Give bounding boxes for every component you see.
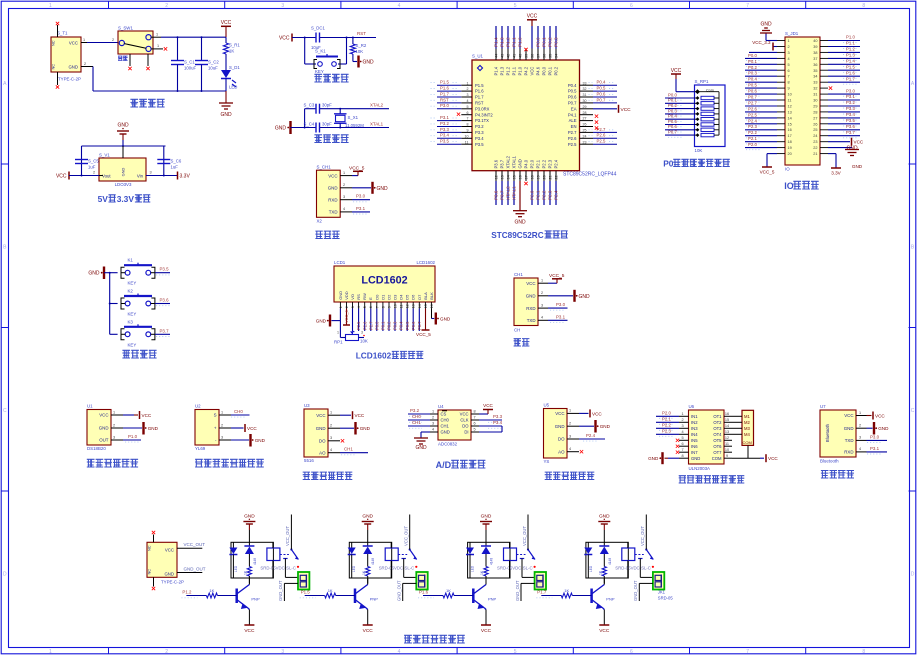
svg-text:P0.7: P0.7 [417,321,422,330]
svg-text:P0.5: P0.5 [405,321,410,330]
svg-text:D0: D0 [374,294,379,300]
svg-text:CH1: CH1 [412,420,421,425]
svg-text:IN2: IN2 [691,420,698,425]
IO port pin 9 left [745,83,790,91]
svg-text:EN: EN [571,124,577,129]
svg-text:P0.6: P0.6 [597,91,606,96]
svg-text:30: 30 [813,99,817,103]
svg-text:P3.4: P3.4 [846,112,855,117]
relay coil of relay 1 [267,542,280,578]
power flag VCC_5 on download port pin1 [349,165,365,175]
svg-text:P2.7: P2.7 [568,130,577,135]
ground at LCD pin1 [316,309,341,338]
svg-text:22: 22 [555,175,559,179]
svg-text:P2.4: P2.4 [554,159,559,168]
svg-text:GND: GND [415,445,427,451]
svg-text:S_D1: S_D1 [229,65,240,70]
svg-text:P1.6: P1.6 [419,590,429,595]
svg-text:P2.3: P2.3 [548,190,553,200]
svg-text:P3.0: P3.0 [846,88,855,93]
svg-text:CH1: CH1 [514,272,523,277]
svg-text:P1.0: P1.0 [518,37,523,47]
base resistor 1K of relay 2 [305,588,355,598]
wire P0.7 to RP1 [665,130,695,138]
svg-text:42: 42 [507,54,511,58]
power flag VCC_5 on serial pin1 [548,273,565,283]
svg-text:P3.1: P3.1 [356,206,366,211]
svg-text:P4.2: P4.2 [524,66,529,75]
wire relay 1 common to terminal [285,559,298,578]
no-connect X on switch bottom stub 1 [128,67,131,70]
svg-text:P2.4: P2.4 [748,118,757,123]
svg-text:GND: GND [852,164,863,169]
svg-text:VCC_5: VCC_5 [549,273,565,279]
svg-text:P0.5: P0.5 [568,89,577,94]
wire GND_OUT from J1 [177,567,206,573]
flyback diode of relay 3 [481,542,494,566]
svg-text:P1.7: P1.7 [537,590,547,595]
svg-text:P0: P0 [663,159,674,169]
svg-text:2: 2 [541,291,543,295]
svg-text:VCC: VCC [527,14,538,20]
LCD pin 2 VDD [344,291,349,308]
svg-text:14: 14 [725,424,729,428]
svg-text:JK1: JK1 [658,590,666,595]
ground above relay 4 [598,514,610,543]
key S_K1 KEY [305,38,347,75]
svg-text:9: 9 [388,306,392,308]
MCU right pin 23 P2.5 [568,139,617,147]
wire CH1 on U3 pin4 [340,447,368,455]
svg-text:2: 2 [221,423,223,427]
relay JK4 SRD-05VDC-SL-C outline [586,542,651,578]
svg-text:P3.0: P3.0 [440,103,449,108]
svg-text:P3.6: P3.6 [846,124,855,129]
svg-text:P3.4: P3.4 [440,133,449,138]
svg-text:D2: D2 [387,294,392,300]
relay contact of relay 1 [280,548,299,568]
svg-text:S_C2: S_C2 [208,60,219,65]
IO port pin 5 left [745,59,790,67]
svg-text:VCC_5: VCC_5 [344,309,349,323]
wire VCC_OUT from J1 [177,542,205,548]
module U7 Bluetooth [820,404,867,464]
capacitor S_C6 1uF [157,159,182,170]
svg-text:S_C3: S_C3 [304,103,315,108]
svg-text:STC89C52RC_LQFP44: STC89C52RC_LQFP44 [563,172,617,178]
svg-text:15: 15 [513,175,517,179]
wire P2.4 on U5 pin3 [579,433,605,441]
svg-text:VCC: VCC [99,413,108,418]
svg-text:VCC: VCC [621,107,632,113]
relay coil of relay 2 [385,542,398,578]
driver U6 ULN2003A [679,404,732,471]
svg-text:12: 12 [788,105,792,109]
svg-text:PNP: PNP [488,597,497,602]
svg-text:35: 35 [549,54,553,58]
IO port pin 36 right [813,59,860,67]
ground on serial pin2 [548,290,590,302]
power flag VCC of reset circuit [279,34,292,42]
svg-text:3: 3 [432,422,434,426]
svg-text:13: 13 [501,175,505,179]
svg-text:5: 5 [681,436,683,440]
connector J1 TYPE-C-2P output [147,535,185,587]
LCD pin 5 RW [362,293,367,331]
svg-text:VCC: VCC [56,173,67,179]
ground on U3 pin2 [340,422,371,435]
svg-text:S_X1: S_X1 [348,115,359,120]
svg-text:CH0: CH0 [234,409,243,414]
MCU top pin 38 VCC [530,26,535,76]
MCU right pin 25 P2.7 [568,127,617,135]
svg-text:5: 5 [363,306,367,308]
svg-text:P1.2: P1.2 [846,47,855,52]
flyback diode of relay 2 [363,542,376,566]
MCU left pin 10 P3.4 [431,133,485,141]
svg-text:P2.3: P2.3 [748,124,757,129]
wire P3.5 from key K1 [155,267,170,275]
svg-text:1: 1 [157,44,159,48]
svg-text:41: 41 [513,54,517,58]
title 温度检测模块 [87,459,95,467]
svg-text:GND_OUT: GND_OUT [397,580,402,601]
wire P2.2 to ULN IN3 [656,423,679,431]
svg-text:5V: 5V [98,194,109,204]
power flag VCC_5 at LCD pin15 [416,309,431,338]
svg-text:S_C5: S_C5 [88,159,99,164]
svg-text:GND: GND [362,514,373,520]
svg-text:6: 6 [681,442,683,446]
svg-text:15: 15 [788,122,792,126]
power flag VCC on U2 pin2 [231,424,257,432]
IO port pin 27 right [813,112,860,120]
svg-text:1: 1 [330,411,332,415]
svg-text:5: 5 [473,428,475,432]
svg-text:VCC: VCC [599,628,610,634]
svg-text:DS18B20: DS18B20 [87,446,106,451]
svg-text:EA: EA [571,106,577,111]
ground above relay 1 [243,514,255,543]
svg-text:8: 8 [681,454,683,458]
svg-text:P3.5: P3.5 [160,267,170,272]
key K3 KEY [110,319,155,347]
svg-text:8: 8 [862,649,865,655]
svg-text:P3.2: P3.2 [410,408,420,413]
title 按键电路 [122,350,130,358]
LED S_D1 [221,65,240,91]
no-connect X on U5 pin4 [580,450,583,453]
svg-text:4148: 4148 [371,558,375,565]
wire P3.0 download port pin3 [352,194,370,202]
LCD pin 3 VO [350,294,355,331]
svg-text:RP1: RP1 [334,340,343,345]
svg-text:VCC: VCC [244,628,255,634]
IO port pin 23 right [813,140,828,144]
svg-text:NC: NC [147,569,152,575]
svg-text:VCC_OUT: VCC_OUT [285,526,290,546]
svg-text:IN4: IN4 [691,432,698,437]
svg-text:D5: D5 [405,294,410,300]
svg-text:1: 1 [432,410,434,414]
svg-text:VCC: VCC [592,411,602,416]
svg-text:P0.4: P0.4 [568,83,577,88]
svg-text:P1.7: P1.7 [846,76,855,81]
svg-text:IO: IO [785,167,790,172]
power flag VCC below transistor Q3 [481,610,492,635]
svg-text:16: 16 [725,412,729,416]
svg-text:STC89C52RC: STC89C52RC [491,231,543,240]
svg-text:VCC_5: VCC_5 [349,165,365,171]
svg-text:OT6: OT6 [713,444,722,449]
power flag VCC below transistor Q2 [363,610,374,635]
transistor Q1 PNP [237,578,260,610]
svg-text:GND: GND [648,456,659,461]
svg-text:4: 4 [398,649,401,655]
svg-text:XTAL1: XTAL1 [512,186,517,200]
wire relay 3 common to terminal [522,559,535,578]
svg-text:3: 3 [569,434,571,438]
svg-text:10: 10 [394,304,398,308]
no-connect X on MCU bottom pin 17 [524,182,527,185]
sensor U5 YS rain [544,403,580,465]
wire VCC_OUT to relay 3 contact [522,515,528,550]
svg-text:2: 2 [788,45,790,49]
svg-text:GND: GND [555,424,565,429]
svg-text:P2.1: P2.1 [536,159,541,168]
svg-text:7: 7 [746,3,749,9]
svg-text:S_V1: S_V1 [99,153,110,158]
MCU right pin 33 P0.4 [568,80,617,88]
power flag 3.3V at LDO input [146,171,190,180]
svg-text:3: 3 [859,436,861,440]
svg-text:GND: GND [255,438,266,443]
svg-text:P1.3: P1.3 [500,37,505,47]
no-connect X on J1 top pin [152,531,155,534]
svg-text:P0.4: P0.4 [668,114,677,119]
svg-text:VCC: VCC [221,20,232,26]
no-connect X on MCU top pin 39 [524,48,527,51]
svg-text:39: 39 [525,54,529,58]
svg-text:P1.1: P1.1 [512,66,517,75]
svg-text:A/D: A/D [436,460,452,470]
connector CH1 serial port [514,272,548,333]
MCU left pin 6 P4.3INT2 [461,111,493,118]
wire P3.1 serial pin4 [548,314,568,322]
wire P2.1 to ULN IN2 [656,417,679,425]
svg-text:P2.0: P2.0 [748,142,757,147]
MCU right pin 30 P0.7 [568,97,617,105]
svg-text:P2.5: P2.5 [597,139,606,144]
svg-text:VCC: VCC [316,413,325,418]
ground on U5 pin2 [579,420,611,433]
svg-text:1: 1 [113,410,115,414]
svg-text:P3.5: P3.5 [440,139,449,144]
transistor Q2 PNP [355,578,378,610]
svg-text:DO: DO [319,439,326,444]
svg-text:P2.2: P2.2 [542,190,547,200]
IO port pin 30 right [813,94,860,102]
svg-text:P0.4: P0.4 [748,77,757,82]
relay contact of relay 3 [517,548,536,568]
svg-text:P0.6: P0.6 [748,89,757,94]
wire XTAL2 top [305,108,389,128]
svg-text:2: 2 [165,3,168,9]
svg-text:GND: GND [579,294,591,300]
svg-text:7: 7 [681,448,683,452]
MCU top pin 43 P1.3 [500,26,505,76]
svg-text:P3.1: P3.1 [870,446,880,451]
svg-text:IN5: IN5 [691,438,698,443]
svg-text:D7: D7 [417,294,422,300]
svg-text:3: 3 [149,171,151,175]
svg-text:P2.6: P2.6 [362,321,367,330]
svg-text:30pF: 30pF [322,103,332,108]
connector S_CH1 download port [317,165,353,224]
wire P3.0 on U7 pin3 [867,434,888,442]
svg-text:KEY: KEY [128,312,137,317]
IO port pin 35 right [813,65,860,73]
svg-text:P0.0: P0.0 [542,66,547,75]
svg-text:P1.3: P1.3 [846,53,855,58]
capacitor S_C5 1uF [75,159,99,170]
svg-text:13: 13 [412,304,416,308]
svg-text:RW: RW [362,293,367,300]
svg-text:18: 18 [531,175,535,179]
svg-text:2: 2 [165,649,168,655]
wire P3.7 from key K3 [155,328,170,336]
coil resistor 1K of relay 1 [244,567,252,584]
IO port pin 10 left [745,89,792,97]
svg-text:P0.1: P0.1 [542,37,547,47]
svg-text:LCD1602: LCD1602 [356,351,392,361]
svg-text:4148: 4148 [490,558,494,565]
svg-text:LED: LED [234,565,238,572]
svg-text:7: 7 [746,649,749,655]
svg-text:1K: 1K [446,588,451,593]
svg-text:P0.2: P0.2 [554,66,559,75]
MCU right pin 27 ALE [569,117,593,124]
svg-text:P0.2: P0.2 [387,321,392,330]
svg-text:7: 7 [375,306,379,308]
svg-text:P3.6: P3.6 [494,159,499,168]
svg-text:GND: GND [88,271,100,277]
LCD pin 4 RS [356,294,361,331]
svg-text:4148: 4148 [253,558,257,565]
terminal block of relay 2 [416,572,427,590]
LCD pin 10 D3 [393,294,398,331]
svg-text:P2.2: P2.2 [748,130,757,135]
svg-text:OT3: OT3 [713,426,722,431]
svg-text:37: 37 [813,57,817,61]
svg-text:P3.2: P3.2 [440,121,449,126]
svg-text:PNP: PNP [370,597,379,602]
svg-text:P0.6: P0.6 [411,321,416,330]
relay coil of relay 4 [622,542,635,578]
svg-text:U6: U6 [689,404,695,409]
svg-text:D: D [3,572,7,578]
svg-text:34: 34 [813,75,817,79]
svg-text:S: S [214,413,217,418]
svg-text:P0.3: P0.3 [393,321,398,330]
MCU left pin 9 P3.3 [431,127,485,135]
base resistor 1K of relay 1 [186,588,236,598]
relay contact of relay 4 [635,548,654,568]
svg-text:17: 17 [788,134,792,138]
svg-text:DO: DO [558,437,565,442]
svg-text:GND: GND [338,291,343,300]
IO port pin 16 left [745,124,792,132]
svg-text:5516: 5516 [304,458,314,463]
svg-text:P1.7: P1.7 [475,95,484,100]
switch S_SW1 [118,26,163,67]
power flag VCC on U1 pin1 [123,411,152,419]
svg-text:P0.3: P0.3 [554,37,559,47]
coil resistor 1K of relay 3 [480,567,488,584]
ground of crystal circuit [275,121,291,134]
svg-text:COM: COM [712,456,722,461]
svg-text:IN6: IN6 [691,444,698,449]
IO port pin 25 right [813,124,860,132]
svg-text:2: 2 [112,38,114,42]
svg-text:GND: GND [363,60,375,66]
svg-text:VDD: VDD [344,291,349,300]
svg-text:E: E [368,297,373,300]
svg-text:P2.4: P2.4 [586,433,596,438]
svg-text:12: 12 [495,175,499,179]
no-connect X on IO pin 32 [829,86,832,89]
svg-text:AO: AO [319,450,326,455]
svg-text:P0.1: P0.1 [668,98,677,103]
svg-text:IO: IO [784,181,794,191]
svg-text:P1.5: P1.5 [301,590,311,595]
MCU S_U1 STC89C52RC body [472,54,617,178]
svg-text:OT2: OT2 [713,420,722,425]
svg-text:YL69: YL69 [195,446,206,451]
svg-text:11: 11 [788,99,792,103]
svg-text:COM: COM [743,440,752,445]
svg-text:1K: 1K [229,49,234,54]
svg-text:VCC: VCC [247,426,257,431]
ground on ULN GND pin8 [648,452,679,464]
svg-text:24: 24 [813,134,817,138]
svg-text:1: 1 [859,411,861,415]
svg-text:P0.5: P0.5 [668,119,677,124]
svg-text:NC: NC [51,40,56,46]
wire P3.1 download port pin4 [352,206,370,214]
svg-text:S_SW1: S_SW1 [118,26,133,31]
svg-text:CH1: CH1 [344,447,353,452]
svg-text:M3: M3 [744,426,750,431]
relay JK2 SRD-05VDC-SL-C outline [349,542,414,578]
svg-text:40: 40 [519,54,523,58]
power flag VCC for RP1 [671,68,695,92]
ground on U7 pin2 [867,422,890,435]
svg-text:1: 1 [337,331,339,335]
power flag VCC on U7 pin1 [867,412,886,420]
svg-text:38: 38 [813,51,817,55]
indicator LED of relay 1 [229,542,238,578]
capacitor S_C4 30pF [304,122,333,133]
svg-text:CH0: CH0 [441,418,450,423]
svg-text:Bluetooth: Bluetooth [820,459,839,464]
svg-text:VCC: VCC [142,413,152,418]
svg-text:3: 3 [788,51,790,55]
svg-text:TXD: TXD [527,318,536,323]
svg-text:GND: GND [316,426,326,431]
svg-text:4: 4 [859,447,861,451]
title 土壤湿度检测模块 [195,459,203,467]
